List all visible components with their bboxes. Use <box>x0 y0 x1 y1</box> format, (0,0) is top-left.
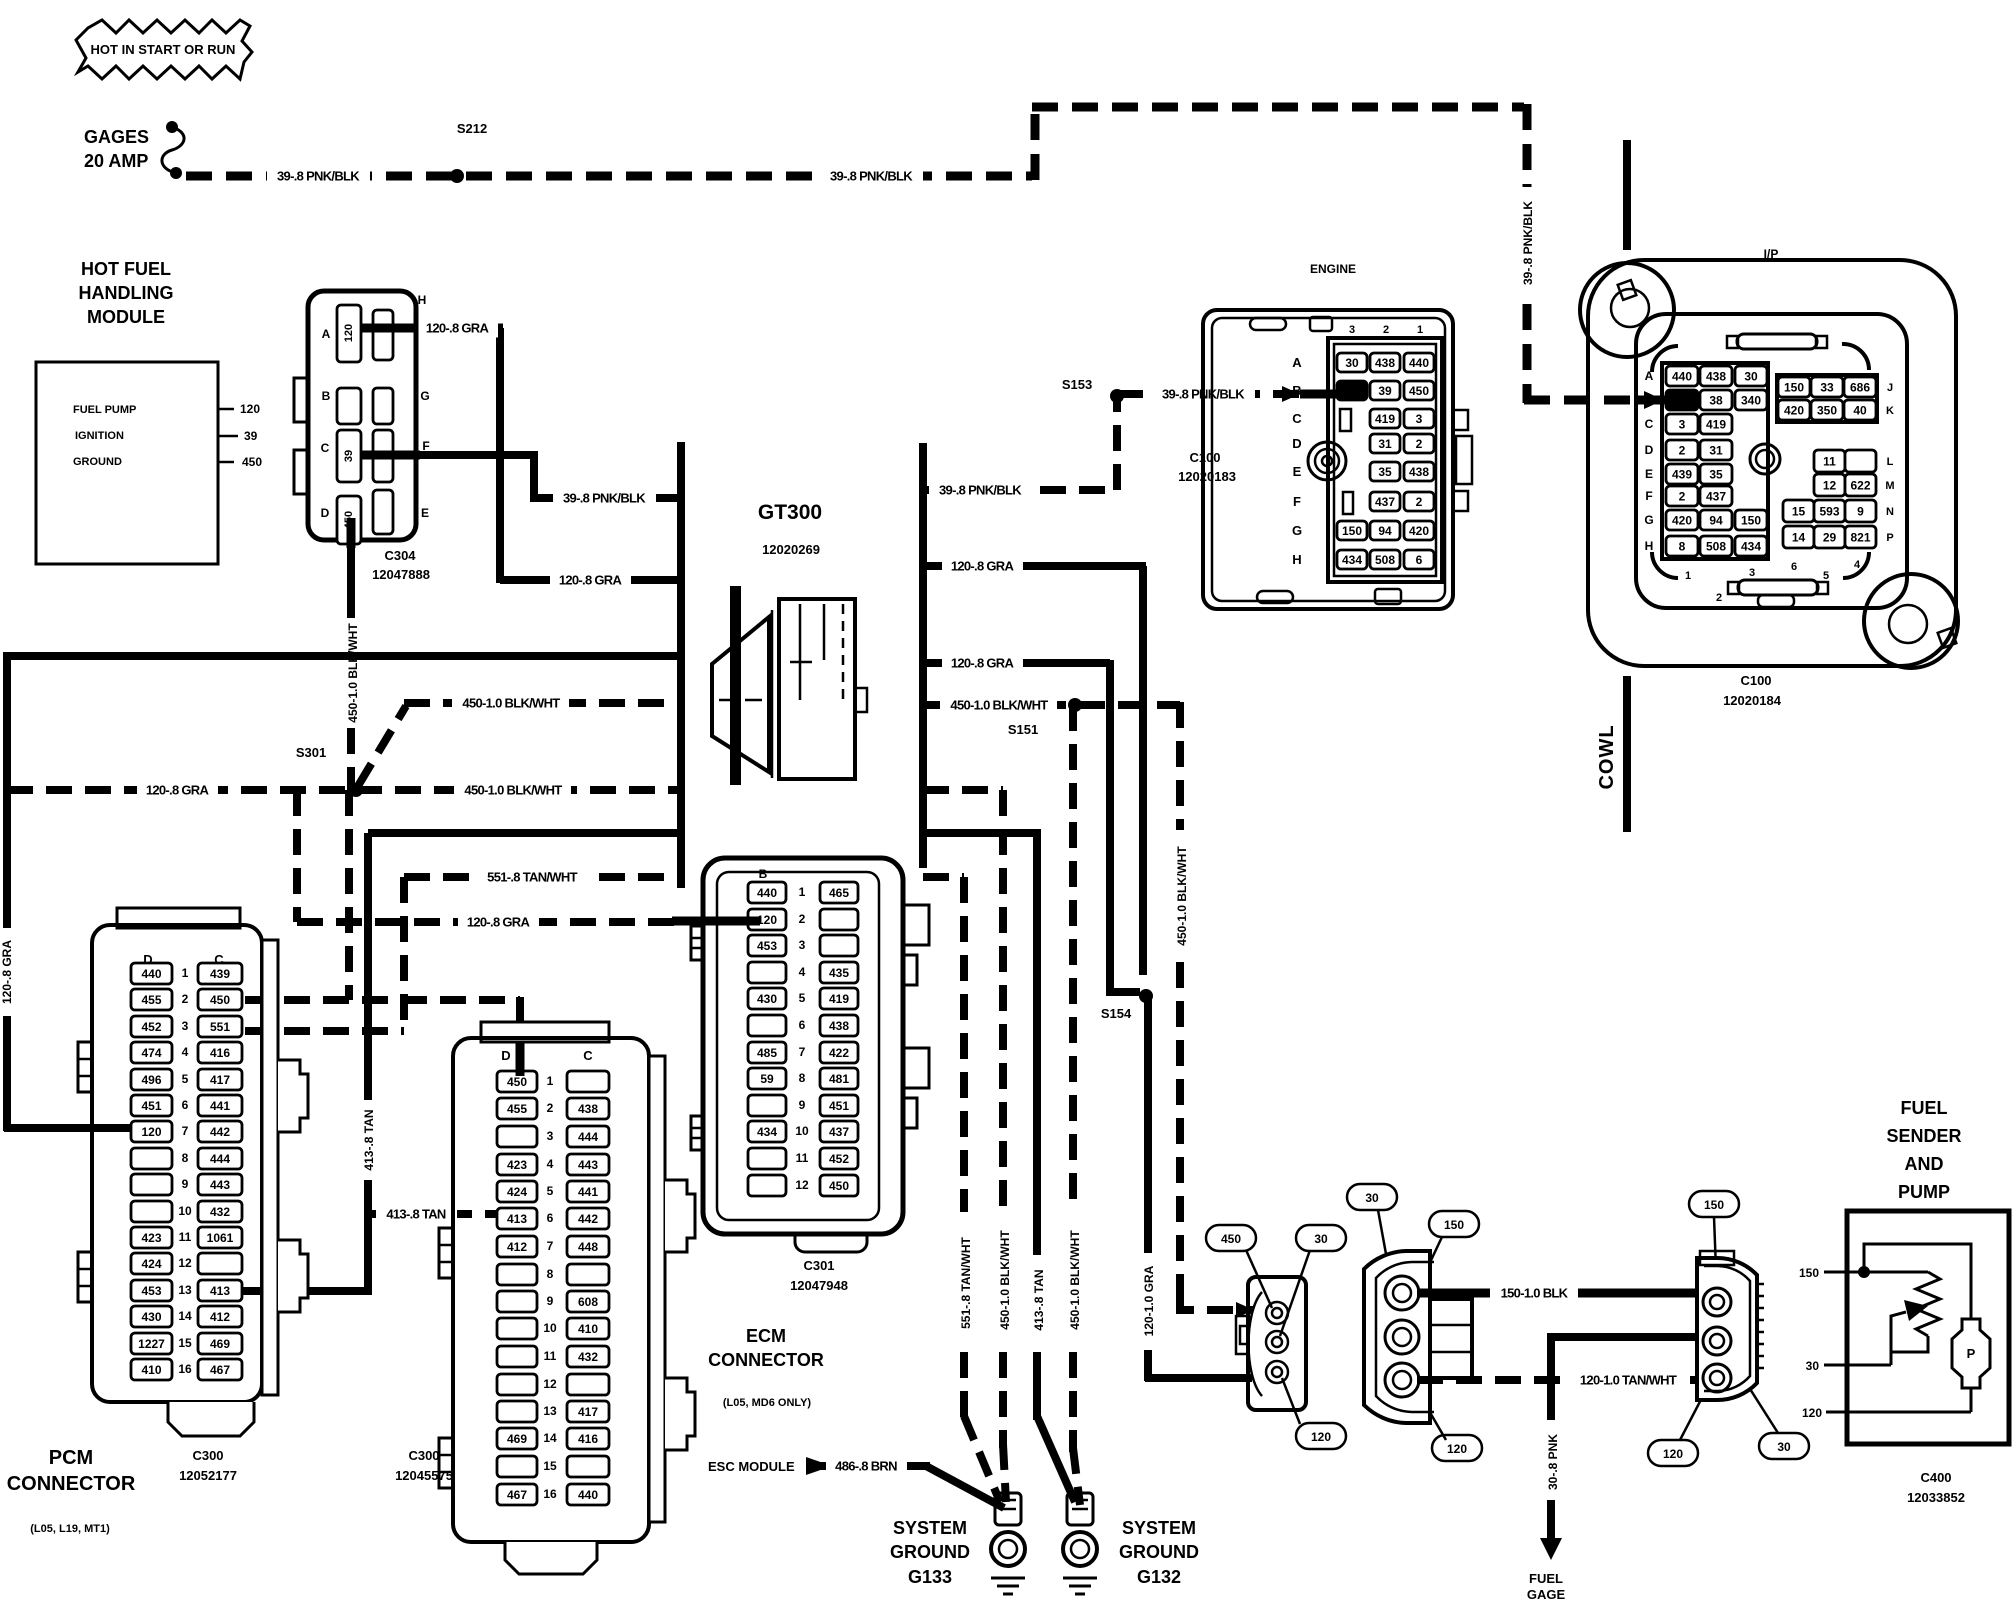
I/P pin K col3 40 <box>1844 400 1876 420</box>
svg-text:C100: C100 <box>1189 450 1220 465</box>
connector C304 pin D 450 <box>337 496 361 544</box>
leader line oval 450 <box>1246 1250 1272 1308</box>
svg-text:419: 419 <box>1706 417 1726 431</box>
svg-text:422: 422 <box>829 1046 849 1060</box>
svg-text:GROUND: GROUND <box>73 456 122 468</box>
svg-text:120-.8 GRA: 120-.8 GRA <box>559 573 623 588</box>
connector fuel pump harness body <box>1248 1277 1306 1410</box>
wiper arrow of fuel sender <box>1891 1312 1906 1365</box>
svg-text:443: 443 <box>578 1158 598 1172</box>
wire from PCM pin C13 to 413 vertical <box>242 1287 372 1295</box>
wire 39 into I/P pin B <box>1636 396 1682 405</box>
C300-2 row 13 <box>497 1401 537 1422</box>
wire 450 stub into C300-2 pin D1 <box>516 1042 525 1076</box>
svg-text:20 AMP: 20 AMP <box>84 151 148 171</box>
svg-text:440: 440 <box>578 1488 598 1502</box>
svg-text:35: 35 <box>1709 467 1723 481</box>
PCM row 1 <box>131 963 172 984</box>
engine pin H3 434 <box>1337 550 1367 569</box>
label 120-.8 GRA <box>417 318 498 338</box>
svg-text:444: 444 <box>578 1130 598 1144</box>
svg-text:432: 432 <box>210 1205 230 1219</box>
stub 450 <box>218 461 234 464</box>
svg-text:2: 2 <box>1383 324 1389 336</box>
svg-text:ENGINE: ENGINE <box>1310 262 1356 276</box>
svg-text:551-.8 TAN/WHT: 551-.8 TAN/WHT <box>959 1236 973 1328</box>
svg-text:453: 453 <box>141 1284 161 1298</box>
svg-text:450: 450 <box>1221 1232 1241 1246</box>
wire 450-1.0 BLK/WHT from C304 pin D down to S301 <box>347 535 355 618</box>
PCM row 5 <box>131 1069 172 1090</box>
svg-text:4: 4 <box>1854 559 1861 571</box>
svg-text:G: G <box>1644 513 1653 527</box>
svg-text:120-.8 GRA: 120-.8 GRA <box>951 656 1015 671</box>
I/P pin K col2 350 <box>1811 400 1843 420</box>
C300-2 row 5 <box>497 1181 537 1202</box>
svg-text:340: 340 <box>1741 393 1761 407</box>
svg-text:11: 11 <box>544 1349 557 1363</box>
svg-text:453: 453 <box>757 939 777 953</box>
engine pin A3 30 <box>1337 353 1367 372</box>
engine pin H1 6 <box>1404 550 1434 569</box>
svg-text:S301: S301 <box>296 745 326 760</box>
svg-text:8: 8 <box>799 1071 806 1085</box>
svg-text:420: 420 <box>1409 524 1429 538</box>
engine connector bottom slots <box>1257 591 1293 603</box>
svg-text:6: 6 <box>182 1098 189 1112</box>
svg-text:39: 39 <box>343 450 355 462</box>
svg-text:HOT IN START OR RUN: HOT IN START OR RUN <box>91 42 236 57</box>
PCM row 10 <box>131 1201 172 1222</box>
leader line oval 30 to pin 2 <box>1280 1250 1310 1336</box>
engine pin G3 150 <box>1337 521 1367 540</box>
svg-text:413-.8 TAN: 413-.8 TAN <box>1032 1269 1046 1330</box>
label 39-.8 PNK/BLK <box>553 488 656 508</box>
svg-text:C400: C400 <box>1920 1470 1951 1485</box>
svg-text:J: J <box>1887 382 1893 394</box>
svg-text:A: A <box>1645 369 1654 383</box>
connector GT300 body <box>712 617 769 772</box>
svg-text:B: B <box>322 389 331 403</box>
I/P pin A col1 <box>1666 366 1698 386</box>
svg-text:120-.8 GRA: 120-.8 GRA <box>467 915 531 930</box>
svg-text:450-1.0 BLK/WHT: 450-1.0 BLK/WHT <box>950 698 1048 713</box>
svg-text:39-.8 PNK/BLK: 39-.8 PNK/BLK <box>1521 201 1535 285</box>
svg-text:416: 416 <box>578 1432 598 1446</box>
svg-text:439: 439 <box>1672 467 1692 481</box>
svg-text:481: 481 <box>829 1072 849 1086</box>
wire 450 dashed from PCM pin C2 to C300 pin D1 <box>245 996 520 1004</box>
I/P pin P col1 <box>1783 526 1814 548</box>
wire 551 dashed from PCM pin C3 <box>245 1027 404 1035</box>
svg-text:39-.8 PNK/BLK: 39-.8 PNK/BLK <box>277 169 360 184</box>
wire 150 to pump top <box>1864 1244 1971 1319</box>
svg-text:496: 496 <box>141 1073 161 1087</box>
svg-text:150-1.0 BLK: 150-1.0 BLK <box>1501 1286 1569 1301</box>
leader line oval 30 middle connector <box>1378 1210 1398 1320</box>
svg-text:12020183: 12020183 <box>1178 469 1236 484</box>
svg-text:D: D <box>501 1048 510 1063</box>
svg-text:442: 442 <box>210 1125 230 1139</box>
label 39-.8 PNK/BLK <box>1152 384 1255 404</box>
C300-2 row 2 <box>497 1098 537 1119</box>
engine pin D2 31 <box>1370 434 1400 453</box>
ECM row 11 <box>748 1148 786 1169</box>
svg-text:439: 439 <box>210 967 230 981</box>
svg-text:E: E <box>421 506 429 520</box>
oval label 120 <box>1296 1423 1346 1449</box>
engine connector bolt circle <box>1308 442 1346 480</box>
svg-text:424: 424 <box>507 1185 527 1199</box>
svg-text:467: 467 <box>210 1363 230 1377</box>
C300-2 row 4 <box>497 1154 537 1175</box>
svg-text:SENDER: SENDER <box>1886 1126 1961 1146</box>
svg-text:MODULE: MODULE <box>87 307 165 327</box>
svg-text:2: 2 <box>1716 592 1722 604</box>
svg-text:L: L <box>1887 456 1894 468</box>
svg-text:508: 508 <box>1706 539 1726 553</box>
PCM left tabs <box>78 1042 92 1092</box>
svg-text:469: 469 <box>507 1432 527 1446</box>
ground symbol G133 <box>991 1577 1025 1580</box>
svg-text:430: 430 <box>141 1310 161 1324</box>
svg-text:GT300: GT300 <box>758 501 822 524</box>
I/P pin F col2 <box>1700 486 1732 506</box>
svg-text:F: F <box>1645 489 1652 503</box>
svg-text:413-.8 TAN: 413-.8 TAN <box>386 1207 446 1222</box>
I/P pin N col2 <box>1814 500 1845 522</box>
engine pin C1 3 <box>1404 409 1434 428</box>
svg-text:6: 6 <box>547 1211 554 1225</box>
svg-text:450: 450 <box>242 455 262 469</box>
wire into PCM pin D7 <box>4 1124 134 1132</box>
ECM row 6 <box>748 1015 786 1036</box>
svg-text:12: 12 <box>178 1256 192 1270</box>
svg-text:8: 8 <box>1679 539 1686 553</box>
ring terminal G132 <box>1067 1493 1093 1525</box>
svg-text:C: C <box>1645 417 1654 431</box>
svg-text:444: 444 <box>210 1152 230 1166</box>
svg-text:434: 434 <box>1741 539 1761 553</box>
leader line oval 120 to pin 3 <box>1282 1378 1300 1424</box>
svg-text:IGNITION: IGNITION <box>75 430 124 442</box>
svg-text:1061: 1061 <box>207 1231 234 1245</box>
I/P pin A col3 <box>1735 366 1767 386</box>
svg-text:120-.8 GRA: 120-.8 GRA <box>0 940 14 1004</box>
svg-text:450: 450 <box>829 1179 849 1193</box>
svg-text:120: 120 <box>757 913 777 927</box>
C300-2 row 8 <box>497 1264 537 1285</box>
svg-text:120: 120 <box>1447 1442 1467 1456</box>
ECM right latches <box>903 905 929 945</box>
svg-text:SYSTEM: SYSTEM <box>893 1518 967 1538</box>
svg-text:SYSTEM: SYSTEM <box>1122 1518 1196 1538</box>
svg-text:FUEL: FUEL <box>1901 1098 1948 1118</box>
I/P pin N col3 <box>1845 500 1876 522</box>
svg-text:FUEL PUMP: FUEL PUMP <box>73 404 136 416</box>
svg-text:6: 6 <box>1416 553 1423 567</box>
svg-text:441: 441 <box>578 1185 598 1199</box>
wire 39-.8 PNK/BLK from S153 to trunk <box>923 486 1117 494</box>
svg-text:15: 15 <box>543 1459 557 1473</box>
svg-text:30-.8 PNK: 30-.8 PNK <box>1546 1434 1560 1490</box>
I/P pin K col1 420 <box>1778 400 1810 420</box>
I/P pin H col1 <box>1666 536 1698 556</box>
svg-text:450-1.0 BLK/WHT: 450-1.0 BLK/WHT <box>998 1230 1012 1330</box>
svg-text:508: 508 <box>1375 553 1395 567</box>
svg-text:2: 2 <box>1416 437 1423 451</box>
ECM row 5 <box>748 988 786 1009</box>
I/P pin B col1 <box>1666 390 1698 410</box>
svg-text:38: 38 <box>1709 393 1723 407</box>
label 150-1.0 BLK <box>1490 1283 1578 1303</box>
wire 413-.8 TAN vertical x368 <box>364 833 372 1100</box>
svg-text:PCM: PCM <box>49 1447 93 1469</box>
svg-text:30: 30 <box>1744 369 1758 383</box>
PCM row 9 <box>131 1174 172 1195</box>
svg-text:30: 30 <box>1345 356 1359 370</box>
svg-text:1: 1 <box>1685 570 1691 582</box>
svg-text:2: 2 <box>547 1101 554 1115</box>
svg-text:S151: S151 <box>1008 722 1038 737</box>
PCM row 7 <box>131 1121 172 1142</box>
label 39-.8 PNK/BLK <box>267 166 370 186</box>
wire 450-1.0 BLK/WHT dashed x1073 to ground G132 <box>1069 705 1077 1208</box>
wire 150-1.0 BLK <box>1417 1289 1705 1298</box>
connector C304 pin G <box>373 388 393 424</box>
C300-2 row 14 <box>497 1428 537 1449</box>
svg-text:5: 5 <box>182 1072 189 1086</box>
svg-text:150: 150 <box>1342 524 1362 538</box>
svg-text:E: E <box>1293 464 1302 479</box>
I/P pin H col2 <box>1700 536 1732 556</box>
ECM row 3 <box>748 935 786 956</box>
svg-text:ECM: ECM <box>746 1326 786 1346</box>
svg-text:39: 39 <box>1378 384 1392 398</box>
I/P pin B col2 <box>1700 390 1732 410</box>
wire 413-.8 TAN horizontal y833 <box>368 829 681 837</box>
svg-text:M: M <box>1885 480 1894 492</box>
I/P pin G col2 <box>1700 510 1732 530</box>
svg-text:N: N <box>1886 506 1894 518</box>
hot fuel handling module box <box>36 362 218 564</box>
svg-text:S154: S154 <box>1101 1006 1132 1021</box>
I/P pin E col2 <box>1700 464 1732 484</box>
svg-text:S212: S212 <box>457 121 487 136</box>
cowl line lower <box>1623 676 1631 832</box>
PCM row 16 <box>131 1359 172 1380</box>
svg-text:31: 31 <box>1378 437 1392 451</box>
svg-text:14: 14 <box>178 1309 192 1323</box>
pin 150 of body connector <box>1385 1276 1419 1310</box>
C300-2 row 7 <box>497 1236 537 1257</box>
svg-text:3: 3 <box>799 938 806 952</box>
wire 450-1.0 BLK/WHT dashed x1180 to connector pin 450 <box>1176 702 1184 830</box>
svg-text:2: 2 <box>1679 489 1686 503</box>
ECM left tabs <box>691 926 703 960</box>
connector C300 PCM body <box>117 908 240 928</box>
svg-text:450-1.0 BLK/WHT: 450-1.0 BLK/WHT <box>346 623 360 723</box>
engine connector right tabs <box>1453 410 1468 430</box>
svg-text:593: 593 <box>1819 504 1839 518</box>
svg-text:CONNECTOR: CONNECTOR <box>708 1350 824 1370</box>
svg-text:35: 35 <box>1378 465 1392 479</box>
svg-text:13: 13 <box>178 1283 192 1297</box>
svg-text:E: E <box>1645 467 1653 481</box>
connector fuel sender body <box>1697 1258 1757 1400</box>
fuel pump symbol <box>1952 1319 1990 1388</box>
leader line oval 30 sender <box>1724 1348 1778 1433</box>
svg-text:150: 150 <box>1704 1198 1724 1212</box>
svg-text:7: 7 <box>182 1124 189 1138</box>
svg-text:417: 417 <box>578 1405 598 1419</box>
pin 30 of sender connector <box>1703 1327 1731 1355</box>
I/P pin N col1 <box>1783 500 1814 522</box>
svg-text:120: 120 <box>240 402 260 416</box>
svg-text:A: A <box>322 327 331 341</box>
svg-text:P: P <box>1967 1346 1976 1361</box>
C300-2 right rail and latch wings <box>649 1056 665 1522</box>
wire 39-.8 PNK/BLK from C304 pin C <box>360 455 681 498</box>
svg-text:441: 441 <box>210 1099 230 1113</box>
svg-text:5: 5 <box>547 1184 554 1198</box>
svg-text:120-.8 GRA: 120-.8 GRA <box>951 559 1015 574</box>
svg-text:9: 9 <box>547 1294 554 1308</box>
svg-text:GROUND: GROUND <box>1119 1542 1199 1562</box>
svg-text:14: 14 <box>1792 530 1806 544</box>
svg-text:437: 437 <box>1706 489 1726 503</box>
svg-text:I/P: I/P <box>1764 247 1779 261</box>
svg-text:1: 1 <box>799 885 806 899</box>
svg-text:3: 3 <box>1349 324 1355 336</box>
svg-text:450-1.0 BLK/WHT: 450-1.0 BLK/WHT <box>462 696 560 711</box>
svg-text:D: D <box>1292 436 1301 451</box>
I/P pin J col1 150 <box>1778 377 1810 397</box>
svg-text:PUMP: PUMP <box>1898 1182 1950 1202</box>
PCM row 3 <box>131 1016 172 1037</box>
wire 551-.8 TAN/WHT dashed y877 <box>404 873 681 881</box>
I/P pin D col2 <box>1700 440 1732 460</box>
svg-text:438: 438 <box>1409 465 1429 479</box>
wire horizontal y656 <box>7 652 681 660</box>
svg-text:D: D <box>1645 443 1654 457</box>
I/P left grid frame <box>1662 363 1768 559</box>
svg-text:451: 451 <box>829 1099 849 1113</box>
PCM row 15 <box>131 1333 172 1354</box>
svg-text:120-1.0 TAN/WHT: 120-1.0 TAN/WHT <box>1580 1373 1677 1388</box>
svg-text:150: 150 <box>1784 380 1804 394</box>
ECM row 12 <box>748 1175 786 1196</box>
C300-2 row 1 <box>497 1071 537 1092</box>
svg-text:420: 420 <box>1784 403 1804 417</box>
svg-text:2: 2 <box>1416 495 1423 509</box>
I/P bottom slot <box>1738 580 1818 595</box>
pin 450 of harness connector <box>1266 1302 1288 1324</box>
wire 120-.8 GRA dashed y790 <box>7 786 352 794</box>
I/P pin E col1 <box>1666 464 1698 484</box>
wire 450-1.0 BLK/WHT dashed branch x349 <box>345 790 353 1000</box>
svg-text:HOT FUEL: HOT FUEL <box>81 259 171 279</box>
svg-text:120: 120 <box>343 324 355 342</box>
engine pin F2 437 <box>1370 492 1400 511</box>
PCM row 14 <box>131 1306 172 1327</box>
svg-text:452: 452 <box>141 1020 161 1034</box>
svg-text:11: 11 <box>796 1151 809 1165</box>
svg-text:30: 30 <box>1365 1191 1379 1205</box>
svg-text:424: 424 <box>141 1257 161 1271</box>
svg-text:474: 474 <box>141 1046 161 1060</box>
svg-text:450: 450 <box>1409 384 1429 398</box>
connector GT300 grommet bar <box>730 586 741 785</box>
svg-text:686: 686 <box>1850 380 1870 394</box>
pin 150 of sender connector <box>1703 1288 1731 1316</box>
label 120-.8 GRA <box>942 556 1023 576</box>
I/P pin M col2 <box>1814 474 1845 496</box>
svg-text:551-.8 TAN/WHT: 551-.8 TAN/WHT <box>487 870 577 885</box>
svg-text:ESC MODULE: ESC MODULE <box>708 1459 795 1474</box>
ground symbol G132 <box>1063 1577 1097 1580</box>
wire to resistor top <box>1864 1271 1928 1274</box>
ECM row 10 <box>748 1121 786 1142</box>
I/P pin J col2 33 <box>1811 377 1843 397</box>
svg-text:13: 13 <box>543 1404 557 1418</box>
svg-text:455: 455 <box>507 1102 527 1116</box>
label 486-.8 BRN <box>826 1456 907 1476</box>
svg-text:412: 412 <box>210 1310 230 1324</box>
svg-text:440: 440 <box>1672 369 1692 383</box>
svg-text:120-.8 GRA: 120-.8 GRA <box>146 783 210 798</box>
svg-text:485: 485 <box>757 1046 777 1060</box>
I/P pin M col3 <box>1845 474 1876 496</box>
C300-2 left tabs <box>439 1228 453 1278</box>
svg-text:H: H <box>1292 552 1301 567</box>
C300-2 bottom foot <box>505 1542 597 1574</box>
engine pin H2 508 <box>1370 550 1400 569</box>
svg-text:COWL: COWL <box>1596 724 1618 789</box>
svg-text:C301: C301 <box>803 1258 834 1273</box>
svg-text:448: 448 <box>578 1240 598 1254</box>
svg-text:150: 150 <box>1444 1218 1464 1232</box>
I/P pin G col1 <box>1666 510 1698 530</box>
C300-2 row 16 <box>497 1484 537 1505</box>
svg-text:C: C <box>1292 411 1302 426</box>
oval label 30 <box>1347 1184 1397 1210</box>
svg-text:442: 442 <box>578 1212 598 1226</box>
svg-text:5: 5 <box>799 991 806 1005</box>
svg-text:C: C <box>583 1048 593 1063</box>
svg-text:12033852: 12033852 <box>1907 1490 1965 1505</box>
svg-text:F: F <box>1293 494 1301 509</box>
svg-text:AND: AND <box>1905 1154 1944 1174</box>
engine pin G2 94 <box>1370 521 1400 540</box>
svg-text:D: D <box>321 506 330 520</box>
svg-text:413-.8 TAN: 413-.8 TAN <box>362 1109 376 1170</box>
oval label 150 <box>1689 1191 1739 1217</box>
svg-text:12020269: 12020269 <box>762 542 820 557</box>
svg-text:K: K <box>1886 405 1894 417</box>
svg-text:G: G <box>420 389 429 403</box>
svg-text:2: 2 <box>182 992 189 1006</box>
connector C304 body <box>308 291 416 540</box>
wire 450 C304 pin D stub <box>347 518 356 548</box>
svg-text:120: 120 <box>1311 1430 1331 1444</box>
svg-text:438: 438 <box>1706 369 1726 383</box>
I/P right top grid J K <box>1777 375 1877 422</box>
wire 120-.8 GRA from C304 pin A <box>360 324 503 333</box>
wire trunk left of GT300 <box>677 442 685 888</box>
svg-text:1: 1 <box>1417 324 1423 336</box>
svg-text:GROUND: GROUND <box>890 1542 970 1562</box>
